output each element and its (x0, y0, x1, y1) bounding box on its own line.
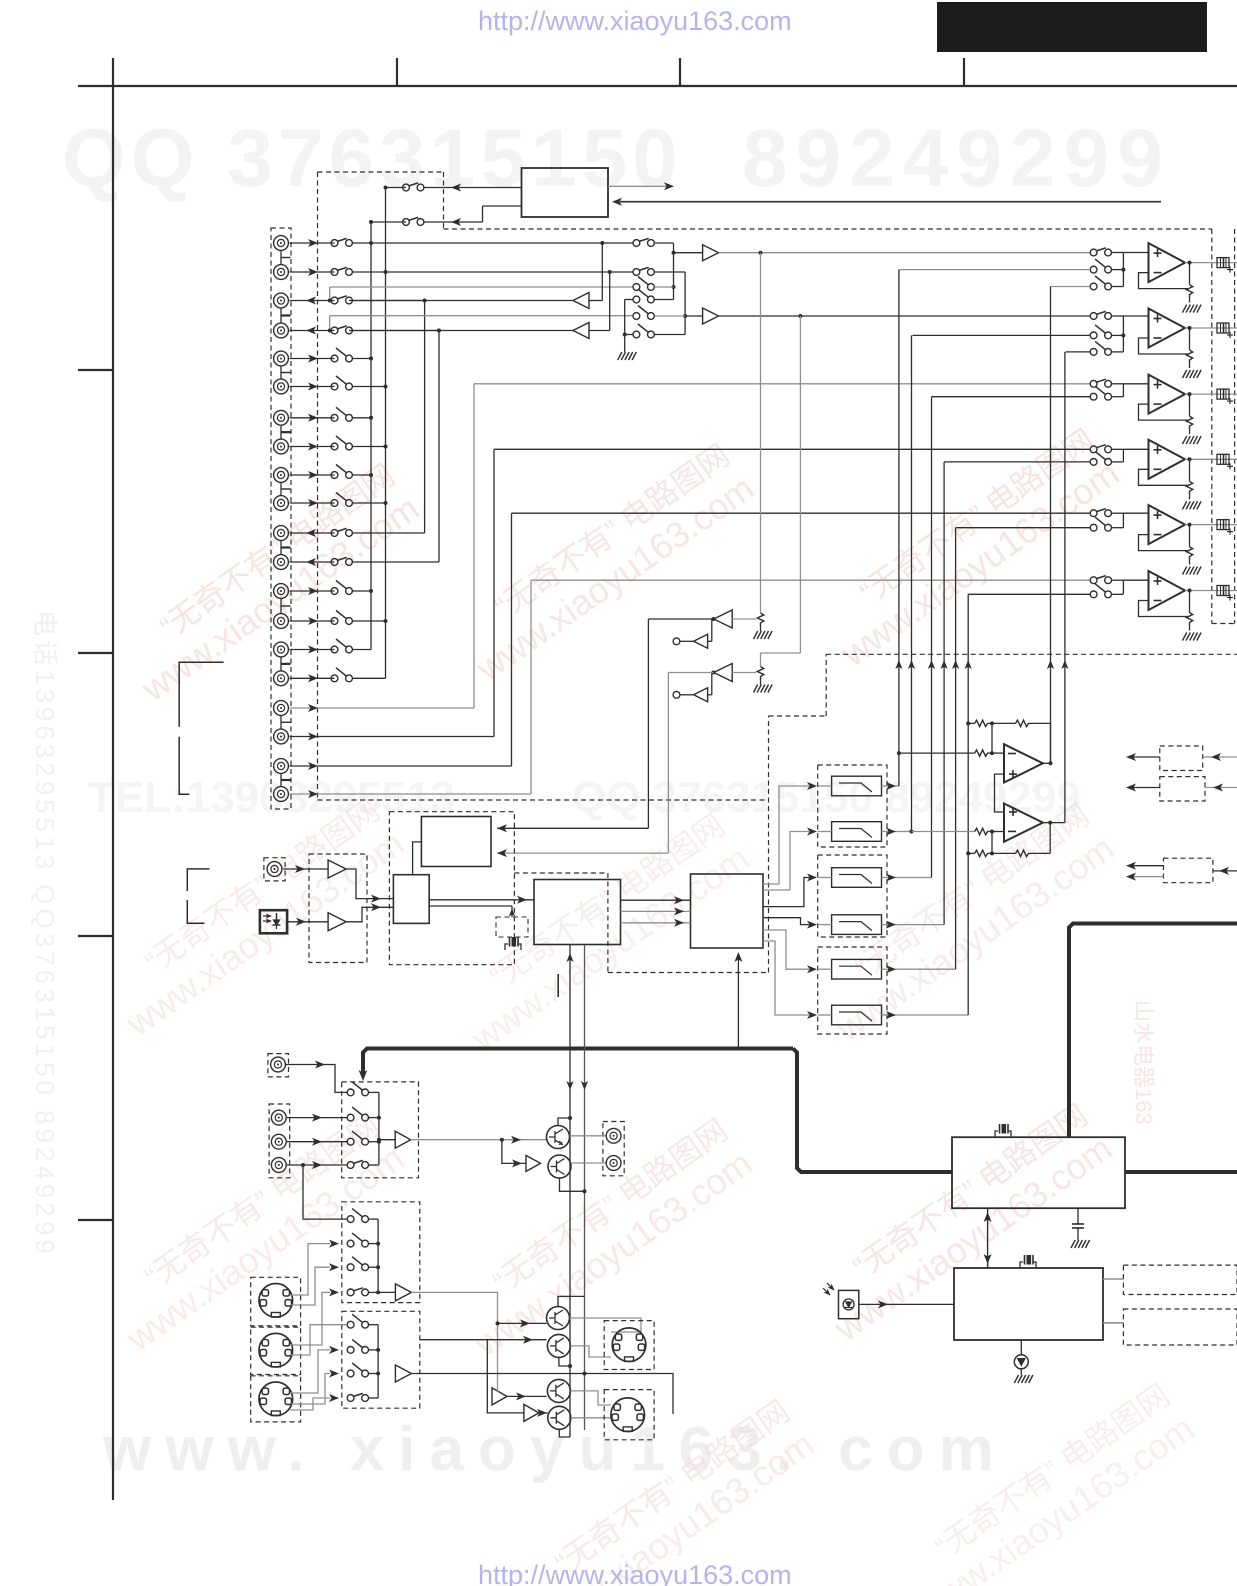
op5 switch junction bus (1122, 513, 1124, 528)
wire branch to small buffer 2 (711, 673, 713, 695)
wire Q3 to DIN4 (570, 1318, 642, 1332)
aux jack J-A1 (268, 1054, 289, 1077)
monitor inv buffer U-M2 (714, 664, 733, 682)
border frame top rule (78, 85, 1237, 87)
wire Q4 bottom stub (559, 1357, 570, 1366)
switchbox1 switch 3 (347, 1138, 354, 1145)
wire buffer2 input from row272 (609, 272, 611, 331)
wire UB output riser (1043, 822, 1065, 824)
DIN socket box right 1 (604, 1321, 654, 1370)
RCA jack J13 (274, 584, 289, 599)
wire Q2 bottom stub (560, 1178, 585, 1191)
wire op1 feedback (1139, 273, 1190, 289)
op4 input switches (1090, 446, 1097, 453)
low-pass filter F3 (832, 868, 882, 888)
svg-text:山水电器163: 山水电器163 (1131, 1000, 1156, 1125)
line-out buffer U-L2 (573, 323, 589, 339)
op-amp U1 (1149, 243, 1186, 282)
selector switch y446.5 (331, 443, 338, 450)
switchbox3 bus (377, 1325, 379, 1398)
buffer U-B1 (395, 1131, 411, 1148)
wire U A/B plus link (995, 774, 1005, 812)
wire buffer1 input from row243 (601, 243, 603, 301)
wire branch to small buffer 1 (711, 619, 713, 641)
digital buffer U-D2 (328, 913, 346, 931)
input row wire y417.8 (290, 417, 335, 419)
op6 switch junction bus (1122, 580, 1124, 594)
jack pair link 2 (280, 309, 282, 323)
wire UA feedback (991, 723, 993, 753)
optical input connector (260, 910, 287, 933)
wire Q1 to J-O1 (570, 1135, 606, 1137)
LED indicator (1020, 1340, 1022, 1355)
buffer U-B2 (526, 1155, 541, 1171)
wire op2 row3 from mix ampB (1066, 351, 1091, 353)
wire U-D1 to DIR (346, 869, 393, 899)
wire D3 to box3 row4 (290, 1398, 330, 1410)
wire Q6 bottom stub (559, 1429, 570, 1437)
wire op5 feedback (1139, 535, 1190, 551)
input row wire y243 (290, 242, 335, 244)
tape1 out jack J-O2 (606, 1156, 621, 1171)
ground op3 (1183, 436, 1187, 444)
wire filter F3 output (882, 877, 897, 879)
switchbox1 dashed (342, 1082, 419, 1178)
op-amp U4 (1149, 440, 1186, 479)
resistor R-M2 (757, 667, 763, 680)
bold control bus left (363, 1049, 793, 1075)
op4 switch junction bus (1122, 449, 1124, 462)
border tick left y1220 (78, 1219, 113, 1221)
resistor R-op6 (1189, 591, 1191, 613)
wire filter F6 riser (896, 1014, 968, 1016)
monitor inv buffer U-M1 (714, 610, 733, 628)
wire DAC to F6 (763, 941, 810, 1015)
buffer U-B3 (395, 1284, 411, 1301)
REC/PB bus verticals (569, 945, 571, 1438)
ground op4 (1183, 501, 1187, 509)
wire row243 extension (371, 242, 633, 244)
wire U-B5 out to Q5 (507, 1395, 547, 1397)
wire inv1 out to box B (648, 618, 713, 620)
svg-text:89249299: 89249299 (742, 113, 1171, 204)
jack pair link 4 (280, 426, 282, 439)
analog region dashed boundary (444, 228, 1212, 230)
wire filter F4 output (882, 924, 897, 926)
RCA jack J17 (274, 701, 289, 716)
rec bus vertical x673.5 (673, 243, 675, 300)
switchbox3 dashed (342, 1311, 420, 1408)
ground LED (1014, 1375, 1018, 1383)
op2 switch junction bus (1122, 316, 1124, 352)
op3 input switches (1090, 380, 1097, 387)
tape1 jack J-T1 (271, 1110, 286, 1125)
wire rec buffer1 out to opamp1 (719, 252, 1091, 254)
border frame left rule (112, 58, 114, 1500)
wire D2 to box2 row4 (290, 1292, 330, 1345)
svg-text:http://www.xiaoyu163.com: http://www.xiaoyu163.com (478, 1560, 792, 1586)
selector switch y503 (331, 500, 338, 507)
switchbox2 switch 2 (347, 1240, 354, 1247)
wire op1 row3 from mix ampA (1051, 286, 1091, 288)
mix op-amp UB (1004, 804, 1043, 842)
DSP dashed boundary (514, 872, 608, 874)
ground R-M2 (754, 685, 758, 693)
wire D3 to box3 row2 (290, 1350, 330, 1393)
wire J-T1 to switch (287, 1117, 347, 1119)
wire coax jack to buffer (283, 868, 328, 870)
DIN connector D2 (259, 1333, 293, 1367)
wire D1 to box2 row2 (290, 1244, 330, 1295)
wire op2 +input (1123, 315, 1148, 317)
jack pair link 7 (280, 599, 282, 613)
wires DSP to DAC (621, 899, 691, 901)
input row wire y386.5 (290, 386, 335, 388)
op2 input switches (1090, 313, 1097, 320)
transistor Q1 (547, 1126, 570, 1149)
selector switch y243 (331, 240, 338, 247)
rec selector switch y316 (633, 313, 640, 320)
RCA jack J1 (274, 236, 289, 251)
ground under U-SYS (1071, 1240, 1075, 1248)
DIR receiver box A (393, 875, 429, 924)
output connector CN2 (1217, 323, 1229, 333)
wire filter F2 output (882, 831, 897, 833)
jack pair link 8 (280, 658, 282, 671)
wire D3 to box3 row3 (291, 1374, 330, 1405)
transistor Q5 (547, 1379, 570, 1402)
output connector CN4 (1217, 454, 1229, 464)
output row wire y562 (290, 561, 335, 563)
border tick left y370 (78, 369, 113, 371)
input jack column dashed box (271, 228, 291, 809)
wire filter F6 output (882, 1014, 897, 1016)
wire to Q3 (498, 1322, 547, 1324)
low-pass filter F2 (832, 822, 882, 842)
wire op3 row2 from filter3 (932, 396, 1091, 398)
RCA jack J10 (274, 496, 289, 511)
digital buffer U-D1 (328, 860, 346, 878)
wire filter F5 output (882, 968, 897, 970)
crystal X1 (505, 944, 508, 950)
RCA jack J14 (274, 614, 289, 629)
tape copy switch SW-T2 (403, 219, 410, 226)
buffer U-B4 (395, 1365, 411, 1382)
wire busA to SW-T2 (371, 221, 406, 223)
wire D2 to box3 row1 (291, 1325, 347, 1355)
low-pass filter F6 (832, 1005, 882, 1025)
direct jack wire loop y708 (290, 707, 475, 709)
wire UA minus input (899, 752, 975, 754)
wire inv buffer 1 input (732, 618, 756, 620)
jack pair link 5 (280, 483, 282, 495)
digital I/O box B (421, 817, 491, 867)
RCA jack J4 (274, 323, 289, 338)
selector switch y330.5 (331, 327, 338, 334)
wire filter F6 input (818, 1014, 832, 1016)
small out buffer U-S2 (694, 688, 708, 702)
op-amp U3 (1149, 375, 1186, 414)
selector switch y475 (331, 472, 338, 479)
wire box2 row1 tap (303, 1165, 347, 1219)
DAC region dashed top edge (826, 653, 1237, 655)
transistor Q2 (548, 1155, 571, 1178)
wire op5 output (1185, 524, 1212, 526)
wire buffer1 output row300 (349, 300, 573, 302)
RCA jack J6 (274, 379, 289, 394)
DIR dashed box (389, 812, 514, 965)
mix op-amp UA (1004, 744, 1043, 782)
ground rec selector (618, 352, 622, 360)
border tick left y936 (78, 935, 113, 937)
wire UB minus input (912, 831, 975, 833)
ground op6 (1183, 633, 1187, 641)
monitor bus vertical x424 (424, 301, 426, 534)
selector switch y621 (331, 618, 338, 625)
rec selector switch y334.5 (633, 331, 640, 338)
selector switch y562 (331, 559, 338, 566)
wire rec buffer2 out to opamp2 (719, 315, 1091, 317)
DIN socket box right 2 (604, 1390, 654, 1440)
wire optical to buffer (287, 921, 328, 923)
rec buffer U-R2 (703, 308, 719, 324)
DAC box D (691, 874, 764, 948)
wire op5 +input (1123, 512, 1148, 514)
switchbox1 switch 4 (347, 1162, 354, 1169)
rec switch right stubs (655, 242, 674, 244)
input row wire y649.5 (290, 649, 335, 651)
RCA jack J15 (274, 642, 289, 657)
wire op2 row2 from filter2 (913, 334, 1091, 336)
wire filter F1 output (882, 785, 897, 787)
bus A vertical (370, 222, 372, 650)
remote IR arrows (827, 1283, 834, 1290)
wire op6 +input (1123, 579, 1148, 581)
output connector dashed column (1211, 229, 1213, 624)
box W (tape copy buffer) (522, 168, 609, 217)
phono bracket 1 (179, 662, 223, 794)
input row wire y446.5 (290, 446, 335, 448)
wire filter F3 input (818, 877, 832, 879)
bold control bus right (1069, 924, 1237, 1138)
op-amp U2 (1149, 309, 1186, 348)
tape1 jack J-T3 (271, 1158, 286, 1173)
ground R-M1 (754, 631, 758, 639)
wire D1 to box2 row3 (291, 1267, 330, 1305)
border tick top x397 (396, 58, 398, 86)
wire inv2 out to box B (668, 672, 713, 674)
digital buffers dashed box (309, 854, 367, 963)
wire op3 output (1185, 393, 1212, 395)
wire U-B1 out (411, 1139, 547, 1141)
link U-SYS to U-DISP (987, 1208, 989, 1268)
low-pass filter F5 (832, 959, 882, 979)
wire Q6 to DIN5 (571, 1417, 611, 1419)
input row wire y272 (290, 271, 335, 273)
RCA jack J7 (274, 410, 289, 425)
low-pass filter F1 (832, 776, 882, 796)
switchbox2 switch 3 (347, 1264, 354, 1271)
wire U-DISP to KB2 (1103, 1322, 1123, 1324)
wire Q3 collector stub (558, 1296, 585, 1306)
tape1 out jack J-O1 (606, 1128, 621, 1143)
wire UB feedback (991, 832, 993, 854)
jack pair link 6 (280, 541, 282, 554)
wire op6 feedback (1139, 601, 1190, 617)
svg-text:http://www.xiaoyu163.com: http://www.xiaoyu163.com (478, 6, 792, 36)
wire op3 feedback (1139, 404, 1190, 420)
wire op4 +input (1123, 448, 1148, 450)
switchbox2 switch 1 (347, 1216, 354, 1223)
output connector CN1 (1217, 258, 1229, 268)
bus B vertical (385, 188, 387, 679)
rec selector switch y299.5 (633, 296, 640, 303)
jack pair link 3 (280, 367, 282, 379)
wire box A clock (429, 905, 512, 907)
remote sensor box (839, 1290, 859, 1318)
RCA jack J5 (274, 351, 289, 366)
wire UA output riser (1043, 762, 1051, 764)
wire op1 +input (1123, 252, 1148, 254)
selector switch y417.8 (331, 414, 338, 421)
DSP box C (534, 880, 621, 945)
ground op2 (1183, 370, 1187, 378)
tape1 out jacks dashed (603, 1122, 624, 1176)
selector switch y649.5 (331, 646, 338, 653)
switchbox3 switch 4 (347, 1395, 354, 1402)
resistor R-op4 (1189, 459, 1191, 481)
cable tick (557, 974, 559, 997)
wire Q2 to J-O2 (571, 1162, 606, 1164)
wire filter F1 input (818, 785, 832, 787)
tape copy switch SW-T1 (403, 184, 410, 191)
keyboard dashed box KB1 (1123, 1265, 1237, 1294)
RCA jack J16 (274, 671, 289, 686)
wire op4 row2 from filter4 (944, 461, 1090, 463)
redacted title block (937, 2, 1207, 52)
wire J-T2 to switch (287, 1141, 347, 1143)
line-out buffer U-L1 (573, 293, 589, 309)
wire op5 row2 from filter5 (956, 527, 1091, 529)
direct jack wire loop y736.5 (290, 736, 495, 738)
input row wire y621 (290, 620, 335, 622)
svg-text:www. xiaoyu163. com: www. xiaoyu163. com (102, 1415, 1008, 1484)
switchbox1 switch 2 (347, 1114, 354, 1121)
wire filter F2 input (818, 831, 832, 833)
switchbox2 bus (377, 1219, 379, 1292)
wire Q1 top stub (558, 1118, 570, 1126)
wire rec1 vertical to inv1 (760, 253, 762, 613)
buffer U-B5 (492, 1388, 507, 1405)
relay box RB1 (1160, 746, 1203, 771)
resistor R-op3 (1189, 394, 1191, 416)
svg-text:电话13963295513 QQ376315150 8924: 电话13963295513 QQ376315150 89249299 (30, 610, 60, 1258)
monitor bus vertical x439 (438, 331, 440, 563)
wire DAC to F1 (763, 786, 810, 884)
wire crossline to Q4 (420, 1339, 547, 1341)
resistor R-op1 (1189, 263, 1191, 285)
relay box RB2 (1160, 777, 1205, 801)
rec selector switch y272 (633, 269, 640, 276)
RCA jack J3 (274, 293, 289, 308)
wire box A to DSP (429, 899, 534, 901)
RCA jack J19 (274, 759, 289, 774)
RCA jack J18 (274, 729, 289, 744)
wire filter F4 riser (896, 924, 944, 926)
direct jack wire loop y766 (290, 765, 512, 767)
rec selector switch y243 (633, 240, 640, 247)
rec ground bus x624.7 (624, 300, 626, 353)
wire op4 feedback (1139, 469, 1190, 485)
DIN connector D4 (612, 1328, 646, 1362)
op5 input switches (1090, 510, 1097, 517)
jack pair link 1 (280, 251, 282, 264)
tape1 jack J-T2 (271, 1134, 286, 1149)
tape1 jack box (269, 1104, 290, 1178)
wire SW-T2 to box W (424, 221, 482, 223)
switchbox1 switch 1 (347, 1089, 354, 1096)
op3 switch junction bus (1122, 384, 1124, 397)
wire Q5 to DIN5 (570, 1391, 611, 1405)
selector switch y386.5 (331, 383, 338, 390)
selector switch y533 (331, 530, 338, 537)
wire DAC to F3 (763, 878, 810, 907)
wire inv buffer 2 input (732, 672, 756, 674)
wire op3 +input (1123, 383, 1148, 385)
capacitor to ground under U-SYS (1077, 1208, 1079, 1224)
wire DAC to F4 (763, 918, 810, 925)
wire control to DAC (737, 955, 739, 1049)
RCA jack J2 (274, 265, 289, 280)
wire box A to box B (413, 842, 422, 875)
ground op5 (1183, 567, 1187, 575)
switchbox2 dashed (342, 1202, 420, 1303)
wire U-DISP to KB1 (1103, 1278, 1123, 1280)
wire op2 output (1185, 327, 1212, 329)
wire box W input from right (620, 201, 1161, 203)
border tick top x680 (679, 58, 681, 86)
DIN socket box left column (251, 1277, 301, 1326)
switchbox2 switch 4 (347, 1289, 354, 1296)
wire op6 row2 from filter6 (968, 593, 1090, 595)
input selector dashed box (318, 171, 444, 173)
switchbox3 switch 1 (347, 1321, 354, 1328)
wire filter F1 riser (896, 785, 899, 787)
wire filter F4 input (818, 924, 832, 926)
wire U-B6 out to Q6 (539, 1412, 548, 1414)
monitor feed wire y315.5 (329, 316, 331, 331)
wire J-T3 to switch (287, 1164, 347, 1166)
wire busB to SW-T1 (386, 187, 407, 189)
wire rec2 vertical to inv2 step (799, 316, 801, 653)
input row wire y358.5 (290, 358, 335, 360)
switchbox3 switch 3 (347, 1370, 354, 1377)
RCA jack J12 (274, 555, 289, 570)
wire U-D2 to DIR (346, 907, 393, 922)
wire DAC to F5 (763, 930, 810, 969)
jack pair link 10 (280, 774, 282, 786)
op-amp U6 (1149, 571, 1186, 610)
bold control bus to right edge (1125, 1170, 1237, 1174)
output connector CN6 (1217, 586, 1229, 596)
transistor Q4 (547, 1334, 570, 1357)
selector switch y678.3 (331, 675, 338, 682)
input row wire y591 (290, 590, 335, 592)
wire op1 row2 from filter1 (899, 269, 1090, 271)
wire filter F5 riser (896, 968, 956, 970)
wire J-A1 to switchbox1 (286, 1065, 347, 1093)
wire op6 output (1185, 590, 1212, 592)
